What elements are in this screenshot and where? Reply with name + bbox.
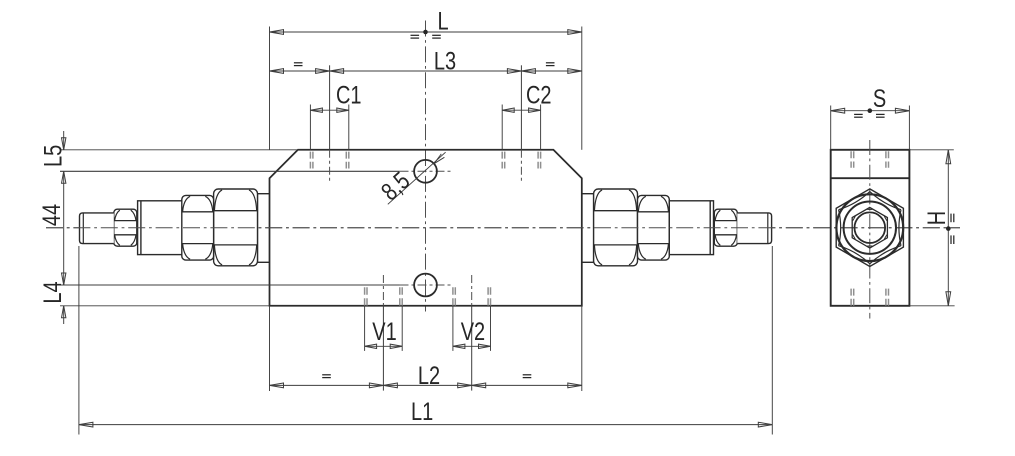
dimension L1 line [79, 424, 772, 426]
svg-text:V1: V1 [372, 318, 396, 346]
port C1 centerline above body [329, 65, 331, 150]
hidden thread lines port C1 [309, 152, 311, 169]
dimension 44 arrow bottom [62, 273, 66, 285]
end view internal hex socket [852, 207, 887, 248]
extension line right body edge down [581, 306, 583, 391]
dimension L3 arrows [270, 69, 284, 74]
cartridge left adjuster cylinder [138, 201, 182, 255]
dimension C1 arrows [310, 108, 322, 112]
cartridge right adjuster hex [714, 209, 737, 246]
dimension L2 equal marks [322, 374, 331, 376]
cartridge left lock nut hex [182, 195, 214, 260]
svg-text:L5: L5 [39, 145, 67, 167]
wire main horizontal centerline axis [46, 227, 960, 229]
svg-text:V2: V2 [461, 318, 485, 346]
dimension L arrows [270, 30, 284, 35]
dimension 44 line [63, 171, 65, 285]
dimension C2 line [502, 109, 540, 111]
end view hidden port lines bottom [850, 289, 852, 306]
extension line right body edge up [581, 27, 583, 150]
dimension V1 extension lines [364, 306, 366, 351]
end view bore circle [855, 212, 886, 243]
end view thread circle [844, 202, 896, 254]
dimension L equal marks [411, 34, 420, 36]
svg-text:H: H [923, 211, 951, 225]
dimension H line [947, 150, 949, 306]
hidden thread lines port V2 [452, 287, 454, 305]
dimension L2 line [270, 384, 582, 386]
port V1 centerline inside body [382, 275, 384, 306]
dimension L4 arrow bottom [62, 306, 66, 318]
dimension L3 equal marks [294, 62, 303, 64]
cartridge left threaded end stub [80, 213, 114, 244]
hidden thread lines port V1 [364, 287, 366, 305]
port V2 centerline below body [471, 306, 473, 391]
mounting hole lower [414, 274, 437, 297]
dimension L1 extension lines [78, 246, 80, 435]
dimension L2 arrows [270, 383, 284, 388]
leader arrow [434, 154, 444, 164]
port V2 centerline inside body [471, 275, 473, 306]
extension line left body edge down [269, 306, 271, 391]
port C2 centerline above body [520, 65, 522, 150]
extension lines left of body [60, 149, 298, 151]
dimension C1 line [310, 109, 348, 111]
dimension C2 arrows [502, 108, 514, 112]
dimension V2 arrows [453, 344, 465, 348]
valve body outline (front view) [270, 150, 582, 306]
end view hex nut outline [836, 189, 903, 267]
end view vertical centerline [869, 140, 871, 319]
end view body outline [831, 150, 910, 306]
dimension L center dot [423, 30, 428, 35]
dimension C2 extension lines [501, 105, 503, 150]
dimension H equal marks [950, 214, 952, 223]
extension line left body edge up [269, 27, 271, 150]
dimension L1 arrows [79, 422, 93, 427]
cartridge left adjuster hex [114, 209, 137, 246]
svg-text:8,5: 8,5 [376, 167, 415, 206]
dimension S extension lines [830, 106, 832, 150]
dimension stack line lower [63, 306, 65, 324]
svg-text:C2: C2 [526, 82, 552, 110]
dimension S equal marks [854, 113, 863, 115]
end view socket corner ticks [867, 208, 872, 210]
cartridge right lock nut hex [638, 195, 670, 260]
svg-text:L4: L4 [39, 281, 67, 303]
svg-text:S: S [873, 85, 886, 113]
port C2 centerline inside body [520, 150, 522, 183]
end view hex chamfer arcs [870, 192, 901, 210]
dimension V1 line [365, 345, 403, 347]
cartridge right threaded end stub [737, 213, 771, 244]
port V1 centerline below body [382, 306, 384, 391]
port C1 centerline inside body [329, 150, 331, 183]
mounting hole 8.5 upper [414, 160, 437, 183]
end view chamfer circle [836, 194, 903, 261]
upper hole horizontal centerline [400, 170, 453, 172]
end view hidden port lines top [850, 151, 852, 168]
cartridge right flange [582, 193, 594, 195]
svg-text:L2: L2 [418, 362, 440, 390]
dimension V1 arrows [365, 344, 377, 348]
svg-text:L: L [438, 7, 449, 35]
port face line upper (through C ports and 8.5 hole) [60, 170, 400, 172]
dimension S arrows [831, 108, 845, 113]
end view top face line [831, 177, 910, 179]
wire body vertical centerline [425, 21, 427, 312]
cartridge right adjuster cylinder [669, 201, 713, 255]
cartridge right large hex nut [594, 189, 638, 266]
cartridge left large hex nut [214, 189, 258, 266]
dimension stack line upper [63, 131, 65, 150]
dimension C1 extension lines [309, 105, 311, 150]
svg-text:L3: L3 [434, 47, 456, 75]
dimension L5 arrows [62, 138, 66, 150]
dimension L line [270, 31, 582, 33]
cartridge left flange [258, 193, 270, 195]
dimension H arrows [946, 150, 951, 164]
dimension H extension lines [909, 149, 953, 151]
dimension V2 extension lines [452, 306, 454, 351]
wire main centerline over cartridges [46, 227, 960, 229]
dimension L3 line [270, 70, 582, 72]
svg-text:L1: L1 [411, 398, 433, 426]
port face line lower (through V ports and lower hole) [60, 284, 400, 286]
dimension S line [831, 110, 910, 112]
svg-text:44: 44 [38, 204, 66, 226]
dimension S center dot [868, 108, 873, 113]
svg-text:C1: C1 [336, 82, 362, 110]
lower hole horizontal centerline [400, 284, 453, 286]
dimension V2 line [453, 345, 491, 347]
leader line 8.5 hole [388, 152, 446, 204]
dimension H center dot [946, 226, 951, 231]
hidden thread lines port C2 [501, 152, 503, 169]
